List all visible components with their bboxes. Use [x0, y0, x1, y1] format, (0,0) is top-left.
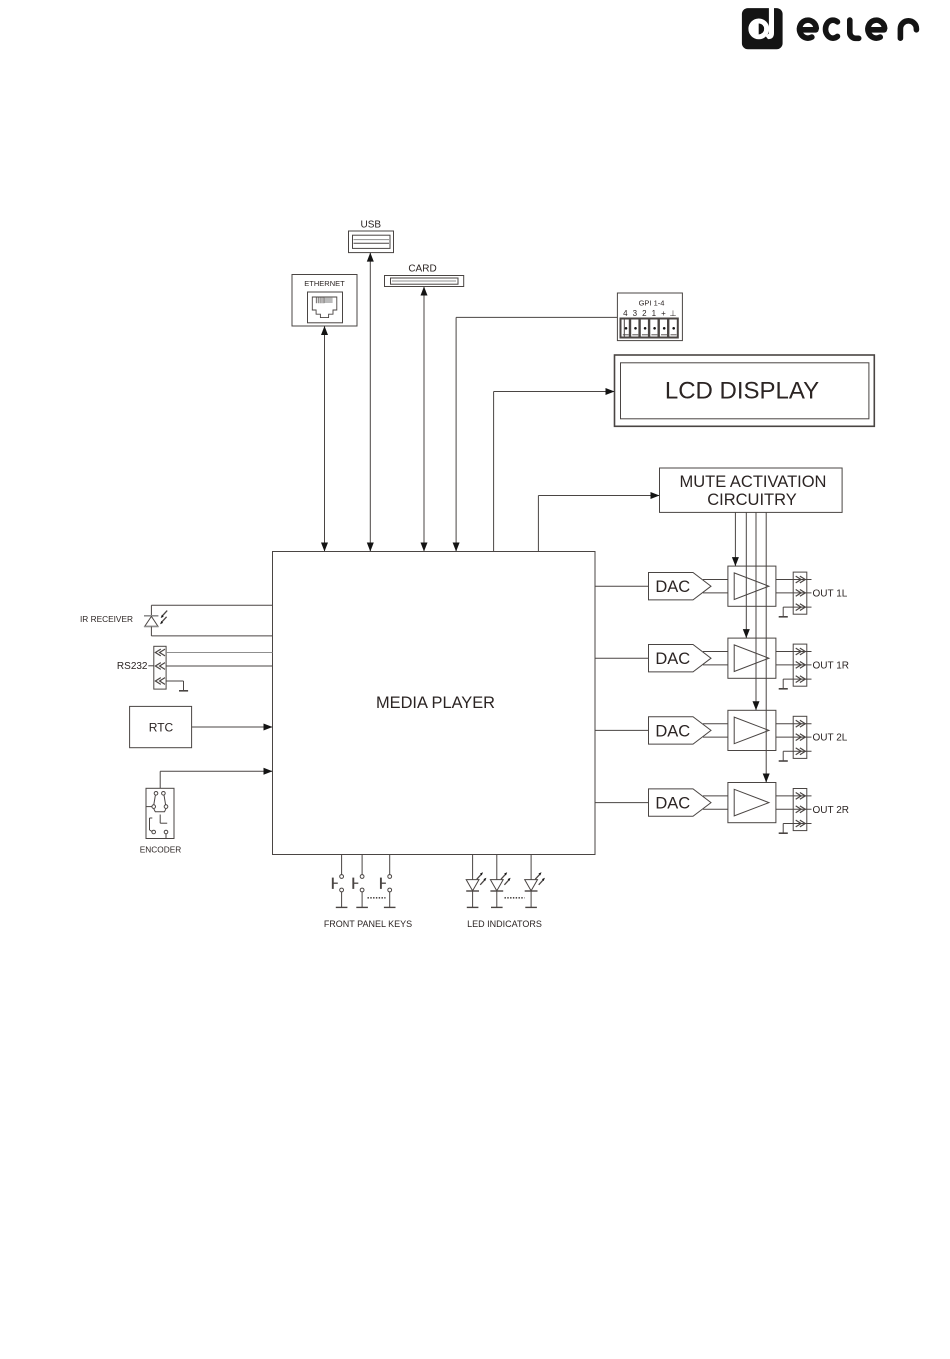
amplifier A4: [728, 783, 776, 823]
wires dac2 to amp2: [703, 652, 728, 665]
rs232 label: [117, 661, 148, 672]
ecler logo mark: [742, 2, 783, 49]
dots between leds: [505, 897, 525, 899]
svg-text:LED INDICATORS: LED INDICATORS: [467, 919, 542, 929]
ground at output 4: [779, 824, 788, 834]
svg-text:MUTE ACTIVATION: MUTE ACTIVATION: [680, 473, 827, 491]
ir receiver photodiode: [144, 605, 167, 636]
wire rtc to media player: [192, 724, 273, 731]
svg-text:4: 4: [623, 309, 628, 318]
label OUT 1R: [813, 660, 850, 671]
lcd display block: [615, 355, 875, 426]
amplifier A2: [728, 638, 776, 678]
ecler wordmark: [800, 20, 917, 38]
led indicator 1: [466, 855, 486, 908]
front panel keys label: [324, 919, 412, 929]
wire media player to lcd: [494, 388, 615, 552]
svg-text:CIRCUITRY: CIRCUITRY: [707, 491, 797, 509]
svg-text:DAC: DAC: [655, 795, 690, 813]
svg-text:RTC: RTC: [149, 721, 174, 735]
ground at output 1: [779, 607, 788, 617]
wire usb to media player: [367, 253, 374, 552]
svg-text:GPI 1-4: GPI 1-4: [639, 299, 665, 308]
output connector OUT 2R: [783, 789, 811, 831]
push button key 1: [333, 855, 348, 908]
wire mute circuitry to amp1: [732, 512, 739, 566]
dots between keys: [368, 897, 386, 899]
svg-text:+: +: [661, 309, 666, 318]
dac D2: [649, 645, 712, 672]
svg-text:DAC: DAC: [655, 650, 690, 668]
media player block: [273, 552, 596, 855]
ir receiver label: [80, 614, 133, 624]
wires dac3 to amp3: [703, 724, 728, 737]
svg-text:OUT 1R: OUT 1R: [813, 660, 850, 671]
svg-text:MEDIA PLAYER: MEDIA PLAYER: [376, 694, 495, 712]
card slot connector: [385, 264, 464, 287]
svg-text:⊥: ⊥: [670, 309, 677, 318]
wires amp1 to output connector: [776, 580, 793, 593]
wires amp4 to output connector: [776, 796, 793, 809]
led indicators label: [467, 919, 542, 929]
label OUT 1L: [813, 588, 848, 599]
amplifier A1: [728, 566, 776, 606]
push button key 3: [381, 855, 396, 908]
svg-text:OUT 2R: OUT 2R: [813, 805, 850, 816]
svg-text:3: 3: [633, 309, 638, 318]
label OUT 2L: [813, 733, 848, 744]
dac D3: [649, 717, 712, 744]
ground at rs232: [166, 681, 188, 691]
amplifier A3: [728, 710, 776, 750]
label OUT 2R: [813, 805, 850, 816]
ground at output 2: [779, 679, 788, 689]
svg-text:LCD DISPLAY: LCD DISPLAY: [665, 378, 819, 405]
wire media player to dac3: [595, 729, 649, 731]
rtc block: [130, 706, 192, 747]
wire media player to mute circuitry: [538, 492, 659, 552]
wires amp3 to output connector: [776, 724, 793, 737]
wire encoder to media player: [160, 768, 272, 789]
svg-text:ETHERNET: ETHERNET: [304, 279, 345, 288]
svg-text:RS232: RS232: [117, 661, 148, 672]
led indicator 3: [525, 855, 545, 908]
svg-text:USB: USB: [361, 220, 382, 231]
svg-text:OUT 1L: OUT 1L: [813, 588, 848, 599]
wires rs232 to media player: [166, 653, 272, 667]
wires dac1 to amp1: [703, 580, 728, 593]
wire mute circuitry to amp4: [763, 512, 770, 782]
wires dac4 to amp4: [703, 796, 728, 809]
wire media player to dac2: [595, 657, 649, 659]
encoder label: [140, 845, 182, 855]
rs232 connector: [148, 646, 166, 689]
ethernet connector RJ45: [292, 275, 357, 327]
output connector OUT 1L: [783, 572, 811, 614]
svg-text:ENCODER: ENCODER: [140, 845, 182, 855]
dac D1: [649, 573, 712, 600]
wire gpi to media player: [453, 317, 618, 551]
usb connector: [349, 220, 394, 253]
wires ir receiver to media player: [151, 605, 272, 636]
ground at output 3: [779, 751, 788, 761]
rotary encoder: [146, 788, 174, 838]
svg-text:DAC: DAC: [655, 722, 690, 740]
svg-text:DAC: DAC: [655, 578, 690, 596]
led indicator 2: [490, 855, 510, 908]
svg-text:IR RECEIVER: IR RECEIVER: [80, 614, 133, 624]
wire media player to dac4: [595, 802, 649, 804]
svg-text:FRONT PANEL KEYS: FRONT PANEL KEYS: [324, 919, 412, 929]
svg-text:1: 1: [652, 309, 657, 318]
wire mute circuitry to amp2: [743, 512, 750, 638]
svg-text:2: 2: [642, 309, 647, 318]
svg-text:CARD: CARD: [408, 264, 436, 275]
wire mute circuitry to amp3: [753, 512, 760, 710]
wires amp2 to output connector: [776, 652, 793, 665]
push button key 2: [353, 855, 368, 908]
mute activation circuitry block: [660, 468, 843, 512]
gpi 1-4 connector: [617, 293, 682, 341]
wire card to media player: [421, 287, 428, 552]
output connector OUT 2L: [783, 716, 811, 758]
wire media player to dac1: [595, 585, 649, 587]
dac D4: [649, 789, 712, 816]
svg-text:OUT 2L: OUT 2L: [813, 733, 848, 744]
wire ethernet to media player: [321, 326, 328, 552]
output connector OUT 1R: [783, 644, 811, 686]
